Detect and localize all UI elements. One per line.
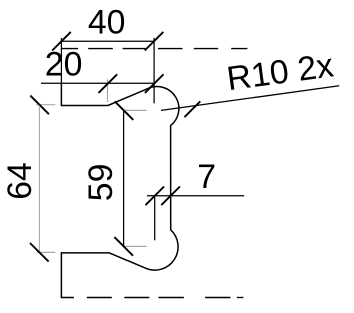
svg-text:40: 40 — [88, 3, 126, 41]
svg-text:64: 64 — [1, 162, 39, 200]
svg-text:59: 59 — [82, 164, 120, 202]
svg-text:7: 7 — [197, 158, 216, 196]
svg-text:20: 20 — [45, 46, 83, 84]
